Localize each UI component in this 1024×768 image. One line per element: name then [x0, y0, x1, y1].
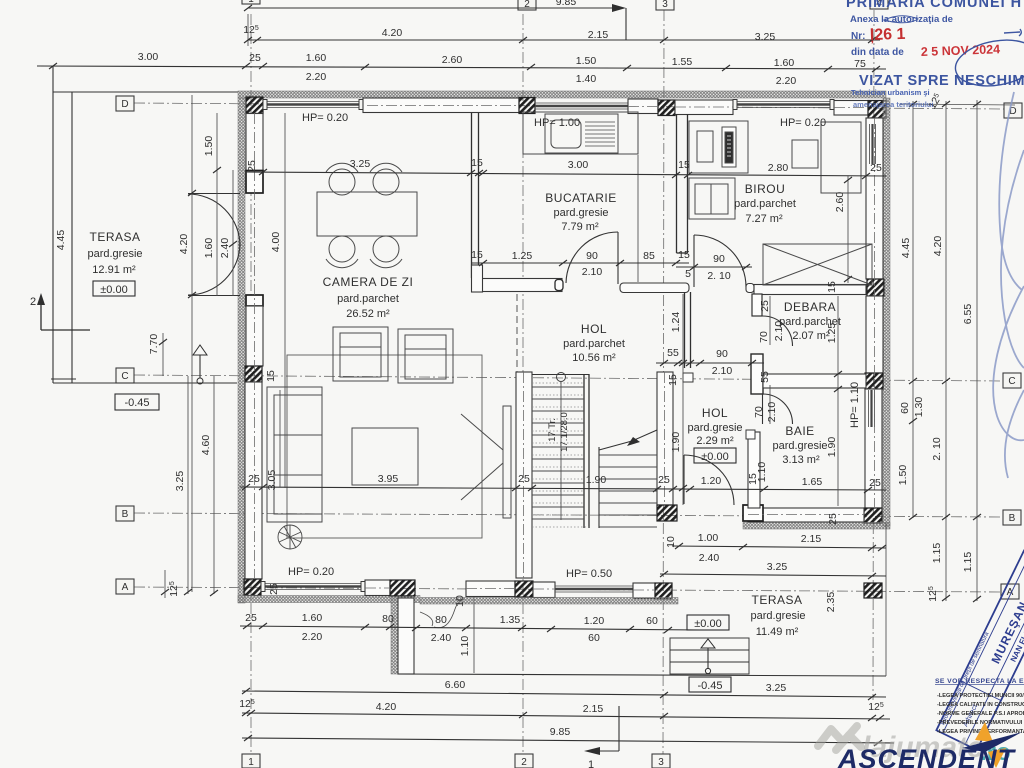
svg-text:3.25: 3.25	[174, 471, 186, 492]
grid box 2 bottom	[515, 754, 533, 768]
svg-text:2.15: 2.15	[588, 29, 609, 41]
svg-text:25: 25	[246, 160, 258, 172]
room label debara	[779, 300, 841, 342]
svg-text:1.50: 1.50	[576, 55, 597, 67]
svg-text:2.40: 2.40	[219, 238, 231, 259]
room label birou	[734, 182, 796, 225]
svg-text:85: 85	[643, 250, 655, 262]
room label hol2	[687, 406, 742, 463]
svg-text:1.15: 1.15	[931, 543, 943, 564]
north wall solid segment birou-left	[675, 100, 733, 115]
dimension row bottom y628	[240, 595, 700, 656]
stairs	[532, 373, 657, 529]
svg-text:2: 2	[521, 757, 527, 768]
svg-text:DEBARA: DEBARA	[784, 300, 836, 314]
grid axis D horizontal	[134, 103, 1004, 109]
svg-text:25: 25	[870, 162, 882, 174]
kitchen side line	[637, 155, 639, 282]
grid axis 2 vertical	[522, 14, 524, 756]
north wall solid segment NE	[834, 101, 868, 116]
svg-text:A: A	[1007, 587, 1014, 598]
svg-text:pard.parchet: pard.parchet	[779, 316, 841, 328]
svg-text:4.20: 4.20	[376, 701, 397, 713]
svg-text:60: 60	[588, 632, 600, 644]
svg-text:1.60: 1.60	[302, 612, 323, 624]
room label camera de zi	[323, 275, 414, 320]
svg-text:25: 25	[245, 612, 257, 624]
svg-text:15: 15	[678, 159, 690, 171]
svg-text:Nr:: Nr:	[851, 31, 865, 42]
svg-text:75: 75	[854, 58, 866, 70]
svg-text:15: 15	[265, 370, 277, 382]
dimension row 6.60 y695	[242, 679, 886, 700]
svg-text:pard.gresie: pard.gresie	[687, 422, 742, 434]
svg-text:15: 15	[826, 281, 838, 293]
svg-text:25: 25	[268, 583, 280, 595]
svg-text:25: 25	[869, 477, 881, 489]
svg-text:Tehnician urbanism şi: Tehnician urbanism şi	[851, 88, 930, 97]
svg-text:15: 15	[667, 374, 679, 386]
grid box A left	[116, 579, 134, 594]
stairwell west wall	[516, 372, 532, 578]
svg-text:10: 10	[454, 595, 466, 607]
right dim column	[897, 92, 1015, 602]
north wall pier NW corner	[246, 97, 263, 114]
svg-text:1.90: 1.90	[670, 432, 682, 453]
svg-text:CAMERA DE ZI: CAMERA DE ZI	[323, 275, 414, 289]
svg-text:25: 25	[249, 52, 261, 64]
hall opening dashed projection	[516, 294, 518, 372]
TV board	[461, 406, 511, 518]
svg-text:pard.gresie: pard.gresie	[772, 440, 827, 452]
grid axis A horizontal	[134, 587, 1000, 592]
svg-text:1.35: 1.35	[500, 614, 521, 626]
svg-text:90: 90	[716, 348, 728, 360]
svg-text:PRIMARIA COMUNEI H: PRIMARIA COMUNEI H	[846, 0, 1022, 11]
section mark 2 left	[30, 293, 90, 330]
grid axis B horizontal	[134, 513, 1002, 517]
birou chair lower	[689, 178, 735, 219]
debara door	[763, 316, 793, 346]
stairwell east wall	[657, 372, 673, 505]
north window kitchen	[535, 103, 628, 109]
terrace level flag	[193, 345, 207, 384]
interior wall living/kitchen	[472, 113, 479, 278]
svg-text:3.25: 3.25	[755, 31, 776, 43]
svg-text:-0.45: -0.45	[697, 680, 722, 692]
svg-text:3.25: 3.25	[767, 561, 788, 573]
grid box A right	[1001, 584, 1019, 599]
svg-text:1: 1	[588, 759, 594, 768]
dimension row top-2	[243, 14, 880, 46]
svg-text:4.60: 4.60	[200, 435, 212, 456]
svg-text:VIZAT SPRE NESCHIM: VIZAT SPRE NESCHIM	[859, 73, 1024, 89]
level box terasa2	[687, 615, 729, 630]
svg-text:D: D	[121, 99, 128, 110]
interior wall between kitchen door and birou door	[620, 283, 689, 293]
svg-text:1.60: 1.60	[203, 238, 215, 259]
east wall debara segment	[866, 296, 883, 373]
room label baie	[772, 424, 827, 466]
birou door	[694, 235, 746, 287]
birou cabinet top	[689, 121, 748, 173]
rug	[287, 355, 482, 538]
terrace east edge	[885, 523, 887, 676]
birou desk	[792, 122, 861, 193]
baie door	[763, 394, 793, 424]
svg-text:HP= 1.00: HP= 1.00	[534, 117, 580, 129]
grid box C right	[1003, 373, 1021, 388]
architect stamp rotated	[936, 550, 1024, 749]
interior wall kitchen south / hall north	[472, 265, 564, 292]
svg-text:80: 80	[382, 613, 394, 625]
svg-text:2.40: 2.40	[699, 552, 720, 564]
svg-text:90: 90	[586, 250, 598, 262]
svg-text:2.20: 2.20	[776, 75, 797, 87]
debara/baie divider	[763, 374, 866, 388]
stairwell SE pier	[657, 505, 677, 521]
svg-text:pard.parchet: pard.parchet	[337, 293, 399, 305]
grid axis 4 vertical	[873, 10, 874, 700]
porch west wall	[391, 598, 414, 674]
baie vanity/radiator	[746, 430, 760, 508]
wardrobe with X	[763, 244, 872, 285]
kitchen door	[566, 232, 618, 284]
svg-text:TERASA: TERASA	[751, 593, 802, 607]
svg-text:±0.00: ±0.00	[701, 451, 728, 463]
svg-text:3.00: 3.00	[138, 51, 159, 63]
east wall pier mid	[867, 279, 884, 296]
dimension row interior y174	[246, 157, 886, 179]
svg-text:HP= 0.20: HP= 0.20	[780, 117, 826, 129]
room label terasa1	[87, 230, 142, 296]
left dim column 4.45	[55, 230, 67, 251]
svg-text:11.49 m²: 11.49 m²	[756, 626, 799, 638]
svg-text:TERASA: TERASA	[89, 230, 140, 244]
svg-text:5: 5	[685, 268, 691, 280]
HP labels	[288, 112, 861, 580]
dimension row 9.85 y740	[242, 726, 894, 746]
east wall pier grid B	[864, 508, 882, 523]
grid box 3 bottom	[652, 754, 670, 768]
svg-text:2.60: 2.60	[442, 54, 463, 66]
svg-text:2.60: 2.60	[834, 192, 846, 213]
svg-text:B: B	[122, 509, 129, 520]
svg-text:2.10: 2.10	[712, 365, 733, 377]
grid box D right	[1004, 103, 1022, 118]
svg-text:4.20: 4.20	[178, 234, 190, 255]
svg-text:A: A	[122, 582, 129, 593]
section mark 1 bottom	[584, 706, 619, 768]
south wall segment right of entry	[466, 581, 515, 597]
svg-text:3: 3	[658, 757, 664, 768]
north wall solid segment over kitchen-left	[363, 98, 519, 113]
stamp blue dash right	[1004, 29, 1021, 36]
svg-text:60: 60	[646, 615, 658, 627]
grid box 3 top	[656, 0, 674, 10]
west wall insulation strip	[238, 98, 245, 603]
svg-text:70: 70	[753, 406, 765, 418]
debara/baie small dims	[747, 176, 852, 612]
svg-text:3.05: 3.05	[266, 470, 278, 491]
svg-text:55: 55	[667, 347, 679, 359]
svg-text:1.40: 1.40	[576, 73, 597, 85]
dining table	[317, 192, 417, 236]
east wall baie window	[865, 389, 882, 508]
svg-text:1.24: 1.24	[670, 312, 682, 333]
south insulation strip right part	[420, 598, 678, 605]
grid axis C horizontal	[134, 375, 1002, 381]
svg-text:HP= 0.50: HP= 0.50	[566, 568, 612, 580]
terrace SE corner pier	[864, 583, 882, 598]
stamp ellipse around date	[952, 34, 1024, 92]
exterior stair bottom	[670, 638, 749, 674]
svg-text:3.25: 3.25	[766, 682, 787, 694]
west door jamb lower	[246, 295, 263, 306]
north wall insulation strip	[238, 91, 886, 98]
svg-text:pard.gresie: pard.gresie	[553, 207, 608, 219]
svg-text:pard.gresie: pard.gresie	[87, 248, 142, 260]
west wall small dims	[265, 370, 280, 595]
south wall segment + pier left of entry	[365, 580, 415, 596]
grid box 1 top	[242, 0, 260, 5]
svg-text:2. 10: 2. 10	[931, 437, 943, 461]
svg-text:ASCENDENT: ASCENDENT	[837, 744, 1017, 768]
terrace inner dim lines	[178, 95, 285, 592]
svg-text:-LEGEA CALITATII IN CONSTRUCTI: -LEGEA CALITATII IN CONSTRUCTII	[937, 702, 1024, 708]
svg-text:7.70: 7.70	[148, 334, 160, 355]
grid box 1 bottom	[242, 754, 260, 768]
svg-text:80: 80	[435, 614, 447, 626]
svg-text:25: 25	[518, 473, 530, 485]
svg-text:3.95: 3.95	[378, 473, 399, 485]
svg-text:±0.00: ±0.00	[100, 284, 127, 296]
grid box B left	[116, 506, 134, 521]
room label hol	[563, 322, 625, 364]
svg-text:6.60: 6.60	[445, 679, 466, 691]
grid box D left	[116, 96, 134, 111]
grid box B right	[1003, 510, 1021, 525]
hol2 door from hall	[684, 455, 734, 505]
svg-text:HP= 0.20: HP= 0.20	[302, 112, 348, 124]
grid box 2 top	[518, 0, 536, 10]
svg-text:1.15: 1.15	[962, 552, 974, 573]
svg-text:2.07 m²: 2.07 m²	[792, 330, 830, 342]
north window birou	[733, 100, 834, 110]
porch slab edge	[399, 674, 886, 676]
svg-text:17.1/28.0: 17.1/28.0	[559, 412, 570, 452]
svg-text:1.50: 1.50	[203, 136, 215, 157]
dining chairs	[326, 163, 402, 268]
svg-text:HP= 0.20: HP= 0.20	[288, 566, 334, 578]
kitchen counter	[523, 112, 638, 154]
wall centerline axes overlay	[255, 106, 875, 591]
dimension row top-3	[37, 51, 886, 87]
left dim column 7.70	[148, 333, 167, 376]
west wall mid segment	[246, 306, 263, 366]
svg-text:2. 10: 2. 10	[707, 270, 731, 282]
svg-text:2.10: 2.10	[766, 402, 778, 423]
dimension row top-1 9.85	[244, 0, 626, 40]
svg-text:15: 15	[471, 157, 483, 169]
svg-text:1.55: 1.55	[672, 56, 693, 68]
svg-text:1.60: 1.60	[774, 57, 795, 69]
svg-text:±0.00: ±0.00	[694, 618, 721, 630]
svg-text:1.10: 1.10	[459, 636, 471, 657]
wall stub right of birou door	[746, 284, 754, 293]
svg-text:BAIE: BAIE	[785, 424, 814, 438]
west door jamb upper	[246, 171, 263, 194]
svg-text:-NORME GENERALE P.S.I APROBATE: -NORME GENERALE P.S.I APROBATE	[937, 711, 1024, 717]
ascendent logo star	[962, 722, 1022, 768]
svg-text:1.50: 1.50	[897, 465, 909, 486]
svg-text:6.55: 6.55	[962, 304, 974, 325]
west terrace double door	[188, 194, 240, 296]
sofa	[267, 387, 322, 522]
armchair 1	[333, 327, 388, 381]
svg-text:1: 1	[248, 0, 254, 5]
svg-text:4.00: 4.00	[270, 232, 282, 253]
svg-text:2.15: 2.15	[801, 533, 822, 545]
west wall pier grid A	[244, 579, 261, 596]
level box left	[115, 394, 159, 410]
dimension row kitchen door y263	[471, 249, 690, 278]
svg-text:1.90: 1.90	[586, 474, 607, 486]
svg-text:pard.gresie: pard.gresie	[750, 610, 805, 622]
west wall pier grid C	[245, 366, 262, 382]
north wall solid segment left of grid3	[628, 99, 658, 114]
svg-text:12.91 m²: 12.91 m²	[92, 264, 136, 276]
svg-text:1.90: 1.90	[826, 437, 838, 458]
room label terasa2	[750, 593, 805, 638]
dimension row 4.20 y716	[239, 698, 890, 721]
room label bucatarie	[545, 191, 616, 233]
hol/debara/baie divider wall	[751, 294, 763, 394]
svg-text:2.35: 2.35	[825, 592, 837, 613]
south window living room	[261, 582, 365, 592]
svg-text:BIROU: BIROU	[745, 182, 786, 196]
grid box C left	[116, 368, 134, 383]
east wall pier grid C	[865, 373, 883, 389]
terrace2 dim row y548	[665, 532, 886, 564]
interior wall kitchen/birou vertical	[677, 114, 688, 253]
debara north wall	[754, 285, 866, 295]
north wall pier NE corner	[868, 101, 886, 119]
hol2 vertical dims	[667, 294, 687, 505]
svg-text:2.20: 2.20	[302, 631, 323, 643]
svg-text:1.25: 1.25	[512, 250, 533, 262]
dimension row birou door y267	[676, 253, 752, 282]
svg-text:7.79 m²: 7.79 m²	[561, 221, 599, 233]
svg-text:4.45: 4.45	[55, 230, 67, 251]
svg-text:1.20: 1.20	[701, 475, 722, 487]
svg-text:3.25: 3.25	[350, 158, 371, 170]
svg-text:3.00: 3.00	[568, 159, 589, 171]
svg-text:1.65: 1.65	[802, 476, 823, 488]
east wall segment birou window	[866, 118, 883, 279]
svg-text:amenajarea teritoriului: amenajarea teritoriului	[853, 100, 933, 109]
svg-text:3.13 m²: 3.13 m²	[782, 454, 820, 466]
svg-text:4.20: 4.20	[932, 236, 944, 257]
svg-text:1.60: 1.60	[306, 52, 327, 64]
north wall pier grid2	[519, 98, 535, 114]
svg-text:1.20: 1.20	[584, 615, 605, 627]
svg-text:60: 60	[899, 402, 911, 414]
svg-text:1.00: 1.00	[698, 532, 719, 544]
small radiator right of stairwell	[683, 373, 693, 382]
south wall segment stair-left	[533, 582, 555, 598]
left dim column 3.25 4.60	[161, 376, 218, 598]
svg-text:C: C	[121, 371, 128, 382]
svg-text:55: 55	[759, 371, 771, 383]
svg-text:2: 2	[30, 296, 36, 308]
baie south wall	[743, 505, 890, 529]
svg-text:15: 15	[678, 249, 690, 261]
lajumate watermark logo	[818, 726, 861, 750]
svg-text:1: 1	[248, 757, 254, 768]
svg-text:1.30: 1.30	[913, 397, 925, 418]
entry door	[434, 593, 474, 673]
svg-text:-PREVEDERILE NORMATIVULUI P118: -PREVEDERILE NORMATIVULUI P118	[937, 720, 1024, 726]
svg-text:9.85: 9.85	[556, 0, 577, 8]
level box porch	[689, 677, 731, 692]
svg-text:4.45: 4.45	[900, 238, 912, 259]
svg-text:70: 70	[758, 331, 770, 343]
svg-text:26.52 m²: 26.52 m²	[346, 308, 390, 320]
svg-text:HOL: HOL	[702, 406, 728, 420]
west wall upper segment	[246, 114, 263, 171]
grid axis 1 vertical	[250, 14, 252, 756]
legal list	[937, 693, 1024, 735]
west wall lower segment	[245, 382, 262, 579]
svg-text:25: 25	[827, 513, 839, 525]
svg-text:25: 25	[248, 473, 260, 485]
dimension row hol2 y363	[656, 347, 764, 377]
stamp signature swoosh top	[884, 16, 918, 23]
svg-text:-0.45: -0.45	[124, 397, 149, 409]
svg-text:15: 15	[747, 473, 759, 485]
svg-text:pard.parchet: pard.parchet	[734, 198, 796, 210]
svg-text:7.27 m²: 7.27 m²	[745, 213, 783, 225]
blue swoosh curves right	[993, 92, 1024, 478]
terrace2 dim row y575	[660, 561, 886, 579]
svg-text:10.56 m²: 10.56 m²	[572, 352, 616, 364]
hol2 west wall	[685, 292, 691, 368]
svg-text:10: 10	[665, 536, 677, 548]
svg-text:HP= 1.10: HP= 1.10	[849, 382, 861, 428]
svg-text:2.15: 2.15	[583, 703, 604, 715]
svg-text:25: 25	[759, 300, 771, 312]
coffee table	[352, 428, 418, 485]
svg-text:pard.parchet: pard.parchet	[563, 338, 625, 350]
terrace north outline	[51, 66, 238, 383]
south wall segment + pier grid3	[633, 583, 672, 599]
svg-text:ļ26 1: ļ26 1	[870, 26, 906, 44]
svg-text:SE VOR RESPECTA LA EXE: SE VOR RESPECTA LA EXE	[935, 678, 1024, 685]
grid axis 3 vertical	[663, 10, 664, 756]
svg-text:HOL: HOL	[581, 322, 607, 336]
plant	[278, 525, 302, 549]
grid box 4 top	[870, 0, 888, 9]
svg-text:BUCATARIE: BUCATARIE	[545, 191, 616, 205]
north wall pier grid3	[658, 100, 675, 116]
svg-text:2.20: 2.20	[306, 71, 327, 83]
svg-text:2.10: 2.10	[582, 266, 603, 278]
south wall pier grid2	[515, 581, 533, 597]
svg-text:2.40: 2.40	[431, 632, 452, 644]
svg-text:-LEGEA PROTECTIEI MUNCII 90/96: -LEGEA PROTECTIEI MUNCII 90/96	[937, 693, 1024, 699]
svg-text:9.85: 9.85	[550, 726, 571, 738]
